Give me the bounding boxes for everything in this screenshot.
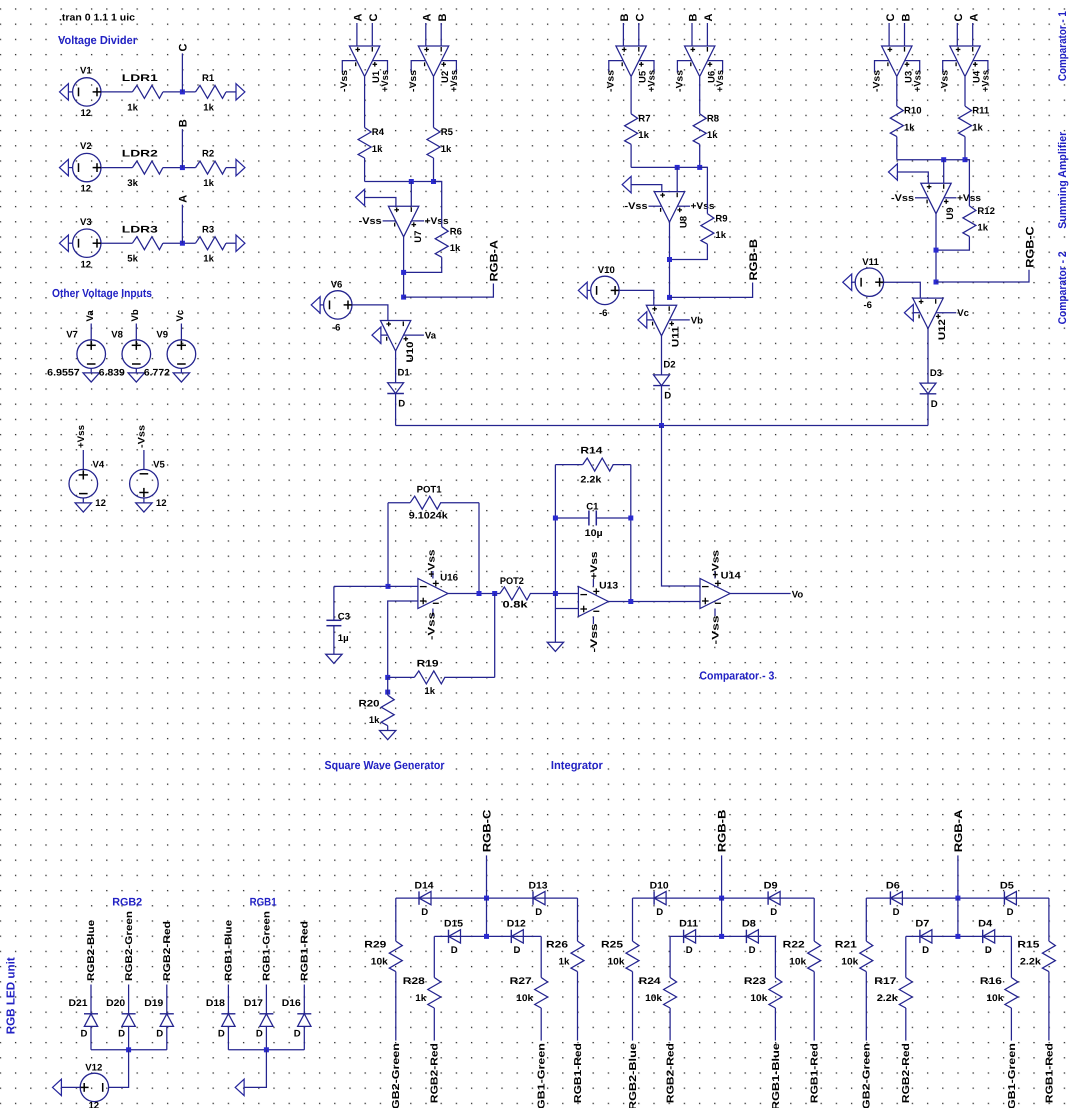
wire [927,329,929,384]
wire to net RGB-A [404,284,494,298]
op-amp U13 [578,587,608,617]
wire output of U4 [964,77,966,106]
wire [82,498,84,503]
svg-text:RGB-A: RGB-A [953,810,965,853]
svg-text:12: 12 [81,108,92,119]
svg-text:1k: 1k [415,993,427,1004]
wire output of U3 [896,77,898,106]
port flag right of R2 [236,159,245,175]
wire [433,936,435,977]
resistor R27 [535,978,548,1009]
wire [135,324,137,340]
resistor R9 [701,214,714,245]
wire [494,594,496,678]
wire V+ of U16 [432,571,434,579]
svg-text:10k: 10k [516,993,534,1004]
resistor R2 [196,161,227,174]
voltage source V11 [855,268,883,296]
wire [852,281,856,283]
svg-text:12: 12 [156,498,167,509]
svg-text:-Vss: -Vss [589,624,600,653]
svg-text:1k: 1k [203,102,214,113]
svg-text:U12: U12 [937,319,948,340]
svg-text:Other Voltage Inputs: Other Voltage Inputs [52,287,152,300]
wire V- rail of U7 [383,220,396,222]
junction [659,423,664,428]
svg-text:D: D [451,945,458,956]
svg-text:LDR2: LDR2 [122,149,158,160]
wire [61,1086,80,1088]
port flag at RGB1 common [235,1079,244,1095]
wire [699,144,701,167]
svg-text:D14: D14 [415,880,435,891]
voltage source V8 [122,340,151,369]
junction [963,157,968,162]
svg-text:D7: D7 [915,919,929,930]
svg-text:-Vss: -Vss [625,201,648,212]
svg-text:D: D [398,399,405,410]
svg-text:V7: V7 [66,329,78,340]
svg-text:RGB1-Green: RGB1-Green [262,911,273,981]
op-amp U14 [700,579,730,609]
wire [265,1026,267,1049]
junction [126,1047,131,1052]
svg-text:Vc: Vc [957,308,969,319]
wire In- of U6 [706,23,708,46]
svg-text:U4: U4 [972,70,983,83]
wire [813,898,815,941]
diode D10 [653,891,655,904]
junction [264,1047,269,1052]
wire [774,1008,776,1041]
svg-text:D: D [686,945,693,956]
svg-text:D: D [535,907,542,918]
svg-text:Va: Va [85,310,96,322]
wire [135,369,137,373]
svg-text:RGB-C: RGB-C [482,810,494,853]
svg-text:+Vss: +Vss [425,216,449,227]
wire [387,677,389,695]
wire [90,369,92,373]
svg-text:R15: R15 [1017,940,1040,951]
ground below V7 [83,373,99,382]
wire [163,167,196,169]
wire [395,393,397,425]
wire output of U8 [669,222,671,297]
junction [477,591,482,596]
svg-text:V9: V9 [156,329,168,340]
svg-text:D: D [256,1029,263,1040]
ground below V9 [173,373,189,382]
resistor R11 [959,106,972,137]
op-amp U3 [882,46,912,77]
wire [883,282,920,298]
resistor R6 [435,227,448,258]
wire [555,608,578,610]
svg-text:RGB2-Blue: RGB2-Blue [628,1043,639,1108]
svg-text:Integrator: Integrator [551,759,603,772]
junction node B [180,165,185,170]
diode D5 [1003,891,1005,904]
port flag left of V1 [60,84,69,100]
wire bus to comparator 3 [396,425,928,427]
svg-text:D: D [118,1029,125,1040]
op-amp U8 [654,192,684,223]
junction [492,591,497,596]
svg-text:-Vss: -Vss [339,70,350,92]
port flag right of R3 [236,235,245,251]
svg-text:R17: R17 [874,976,896,987]
svg-text:V12: V12 [85,1063,102,1074]
wire [896,137,898,160]
svg-text:U10: U10 [405,342,416,363]
op-amp U16 [418,579,448,609]
svg-text:D: D [893,907,900,918]
svg-text:R27: R27 [510,976,532,987]
resistor LDR1 [132,85,163,98]
wire [587,289,591,291]
svg-text:B: B [900,14,912,22]
wire In+ of U4 [956,23,958,46]
junction [409,179,414,184]
svg-text:U2: U2 [440,71,451,83]
svg-text:C1: C1 [586,502,599,513]
resistor R26 [571,941,584,972]
wire level2 row [434,935,541,937]
wire U16 output [447,593,500,595]
svg-text:1k: 1k [904,122,915,133]
wire V+ rail of U7 [412,220,425,222]
svg-text:RGB2-Green: RGB2-Green [391,1043,402,1108]
resistor LDR2 [132,161,163,174]
junction [719,896,724,901]
svg-text:U1: U1 [371,70,382,83]
resistor R10 [890,106,903,137]
svg-text:RGB2: RGB2 [112,897,142,909]
wire [478,503,480,594]
wire [486,898,488,936]
wire V- rail of U1 [342,61,356,73]
wire V- of U16 [432,609,434,617]
voltage source V1 [73,78,101,106]
svg-text:-6: -6 [332,323,341,334]
svg-text:D: D [81,1029,88,1040]
diode D8 [745,930,747,943]
resistor POT1 [388,502,410,504]
wire level2 row [670,935,775,937]
op-amp U11 [646,305,676,336]
wire level2 row [906,935,1012,937]
svg-text:POT2: POT2 [500,576,524,587]
LED diode D20 [122,1013,136,1015]
wire RGB2 common [91,1049,167,1051]
wire [813,972,815,1041]
svg-text:D9: D9 [764,880,778,891]
wire [486,855,488,898]
wire [101,167,132,169]
svg-text:RGB2-Red: RGB2-Red [430,1043,441,1103]
resistor R15 [1042,941,1055,972]
wire [128,985,130,1014]
wire V+ rail of U3 [905,61,920,73]
svg-text:Square Wave Generator: Square Wave Generator [325,759,445,772]
op-amp U2 [418,46,448,77]
svg-text:D: D [421,907,428,918]
port flag left of V12 [53,1079,62,1095]
resistor POT2 [500,587,531,600]
svg-text:U14: U14 [721,571,742,582]
diode D3 [920,383,936,394]
svg-text:9.1024k: 9.1024k [409,510,449,521]
junction [934,248,939,253]
op-amp U7 [388,206,418,237]
wire [965,160,969,206]
port flag at V- of op-amp [904,305,913,321]
resistor LDR3 [132,237,163,250]
junction [955,934,960,939]
svg-text:R12: R12 [977,206,995,217]
wire [554,465,556,594]
wire [1010,1008,1012,1041]
svg-text:1k: 1k [638,130,649,141]
svg-text:Va: Va [425,331,437,342]
svg-text:U8: U8 [679,215,690,228]
wire [227,985,229,1014]
svg-text:C: C [635,14,647,22]
resistor R14 [555,464,582,466]
svg-text:Comparator - 2: Comparator - 2 [1057,251,1069,324]
wire In- of U4 [972,23,974,46]
svg-text:D6: D6 [886,880,900,891]
wire output of U6 [699,77,701,114]
wire V+ rail of U1 [373,61,388,73]
svg-text:1k: 1k [203,178,214,189]
wire V- rail of U2 [411,61,425,73]
port flag at V- of op-amp [372,327,381,343]
wire [180,369,182,373]
wire [395,898,397,941]
wire [632,898,634,941]
svg-text:10k: 10k [371,957,389,968]
svg-text:D3: D3 [930,368,942,379]
junction [667,257,672,262]
svg-text:R28: R28 [403,976,426,987]
svg-text:2.2k: 2.2k [1020,957,1042,968]
port flag at V- of op-amp [638,312,647,328]
svg-text:A: A [969,14,981,22]
diode D6 [889,891,891,904]
svg-text:R25: R25 [601,940,624,951]
svg-text:12: 12 [89,1101,100,1108]
svg-text:1k: 1k [715,230,726,241]
wire [943,160,945,184]
wire V- rail of U4 [943,61,957,73]
port flag left of V2 [60,159,69,175]
voltage source V2 [73,153,101,181]
svg-text:RGB2-Green: RGB2-Green [124,911,135,981]
wire [181,205,183,244]
port flag left of V10 [578,282,587,298]
resistor R25 [626,941,639,972]
wire [676,167,678,191]
svg-text:D11: D11 [679,919,699,930]
svg-text:1k: 1k [372,144,383,155]
wire V+ rail of U5 [639,61,654,73]
wire to net RGB-C [936,270,1029,282]
wire U16 In+ feedback [388,601,418,677]
wire In+ of U6 [691,23,693,46]
wire [226,91,236,93]
svg-text:R9: R9 [715,214,727,225]
wire [774,936,776,977]
wire In+ of U2 [425,23,427,46]
svg-text:POT1: POT1 [417,484,443,495]
ground below V4 [75,503,91,512]
svg-text:RGB-C: RGB-C [1024,226,1036,268]
junction [697,165,702,170]
svg-text:RGB1-Red: RGB1-Red [300,921,311,981]
diode D14 [418,891,420,904]
LED diode D16 [297,1013,311,1015]
diode D11 [683,930,685,943]
svg-text:U7: U7 [413,231,424,243]
wire [180,324,182,340]
wire In+ of U3 [888,23,890,46]
voltage source V5 [130,469,159,498]
svg-text:R1: R1 [202,73,215,84]
wire output of U7 [403,237,405,297]
svg-text:R3: R3 [202,224,214,235]
svg-text:RGB2-Red: RGB2-Red [162,921,173,981]
resistor R4 [358,128,371,159]
svg-text:R22: R22 [783,940,805,951]
wire [905,936,907,977]
svg-text:R16: R16 [980,976,1002,987]
resistor R3 [196,237,227,250]
svg-text:R19: R19 [417,659,439,670]
wire [700,167,708,213]
junction [955,896,960,901]
svg-text:10k: 10k [750,993,768,1004]
op-amp U10 [380,321,410,352]
wire [303,985,305,1014]
wire [90,324,92,340]
wire V- of U13 [592,617,594,625]
wire [1048,898,1050,941]
svg-text:10k: 10k [986,993,1004,1004]
svg-text:R4: R4 [372,127,385,138]
svg-text:RGB2-Blue: RGB2-Blue [86,919,97,981]
wire [905,1008,907,1041]
svg-text:1k: 1k [424,686,435,697]
svg-text:V8: V8 [111,329,123,340]
svg-text:R10: R10 [904,106,922,117]
wire to net Vb [669,319,689,321]
svg-text:V11: V11 [862,257,879,268]
wire [647,319,654,321]
wire V+ rail of U9 [944,197,957,199]
wire [143,498,145,503]
svg-text:R26: R26 [546,940,568,951]
svg-text:10k: 10k [608,957,626,968]
resistor R28 [428,978,441,1009]
port flag right of R1 [236,84,245,100]
LED diode D21 [84,1013,98,1015]
wire [596,517,631,519]
svg-text:D21: D21 [69,998,89,1009]
svg-text:3k: 3k [127,178,138,189]
svg-text:Vo: Vo [792,589,804,600]
LED diode D19 [160,1013,174,1015]
junction [719,934,724,939]
voltage source V6 [324,291,352,319]
svg-text:U6: U6 [706,71,717,83]
svg-text:D18: D18 [206,998,226,1009]
svg-text:RGB1-Red: RGB1-Red [810,1043,821,1103]
svg-text:1k: 1k [977,222,988,233]
wire [163,91,196,93]
svg-text:RGB-A: RGB-A [489,240,501,282]
ground below C3 [326,654,342,663]
wire V- rail of U6 [677,61,691,73]
diode D12 [510,930,512,943]
wire [721,855,723,898]
wire [661,336,663,375]
resistor R7 [625,114,638,145]
wire [387,726,389,731]
svg-text:B: B [619,14,631,22]
junction [385,675,390,680]
ground below V5 [136,503,152,512]
resistor R23 [769,978,782,1009]
ground below R20 [380,731,396,740]
svg-text:-Vss: -Vss [871,70,882,92]
svg-text:-Vss: -Vss [891,193,914,204]
wire [540,1008,542,1041]
svg-text:D: D [218,1029,225,1040]
wire to net Va [404,334,424,336]
svg-text:R21: R21 [835,940,858,951]
svg-text:D2: D2 [663,360,675,371]
svg-text:U9: U9 [945,207,956,219]
diode D4 [982,930,984,943]
wire [227,1026,229,1049]
svg-text:1k: 1k [707,130,718,141]
svg-text:.tran 0 1.1 1 uic: .tran 0 1.1 1 uic [59,13,136,24]
wire [68,242,73,244]
junction [431,179,436,184]
svg-text:-Vss: -Vss [674,70,685,92]
svg-text:C: C [177,44,189,52]
svg-text:LDR3: LDR3 [122,224,158,235]
wire [181,129,183,168]
voltage source V9 [167,340,196,369]
voltage source V7 [77,340,106,369]
resistor R21 [860,941,873,972]
junction [553,516,558,521]
svg-text:1k: 1k [972,122,983,133]
junction node C [180,89,185,94]
svg-text:V1: V1 [80,66,92,77]
svg-text:D1: D1 [398,368,411,379]
wire [630,144,632,167]
svg-text:RGB1-Blue: RGB1-Blue [771,1043,782,1108]
svg-text:R7: R7 [638,113,650,124]
wire [108,1050,128,1088]
svg-text:10k: 10k [841,957,859,968]
svg-text:10k: 10k [789,957,807,968]
svg-text:D: D [922,945,929,956]
